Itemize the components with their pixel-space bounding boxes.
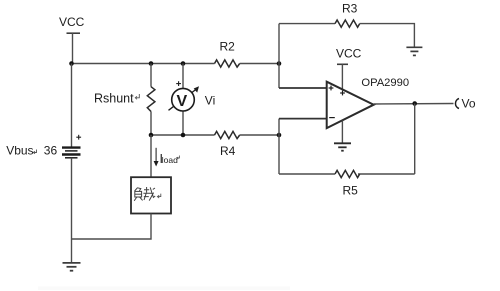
wire +input (node A to op-amp): [279, 87, 327, 89]
ground (R3): [406, 47, 422, 55]
svg-text:R5: R5: [343, 184, 359, 198]
terminal Vo: [455, 99, 459, 109]
node junction VCC rail / battery: [69, 61, 74, 66]
wire top rail left (VCC junction to R2): [72, 63, 215, 65]
resistor R2: [215, 60, 240, 67]
power VCC (op-amp): [336, 46, 362, 91]
svg-text:Rshunt: Rshunt: [94, 91, 134, 105]
wire output: [374, 103, 454, 106]
battery Vbus 36: [62, 64, 81, 264]
svg-text:V: V: [177, 93, 188, 110]
ground (op-amp): [334, 121, 351, 151]
label Rshunt: [94, 91, 139, 105]
svg-text:VCC: VCC: [59, 15, 85, 29]
label Vbus 36: [6, 143, 57, 157]
faint cropped caption at bottom: [38, 287, 290, 291]
node junction R4/R5/-input: [277, 133, 282, 138]
wire R5 left segment: [279, 173, 335, 175]
load box 负载: [131, 177, 171, 213]
node junction output/R5: [412, 101, 417, 106]
svg-text:VCC: VCC: [336, 46, 362, 60]
svg-text:R3: R3: [342, 1, 358, 15]
node junction Rshunt bottom / load: [149, 133, 154, 138]
wire -input (node B to op-amp): [279, 118, 327, 120]
wire load top: [150, 135, 152, 177]
svg-text:R2: R2: [220, 40, 236, 54]
wire R3 left segment: [279, 23, 335, 25]
label Iload: [160, 152, 180, 166]
svg-text:OPA2990: OPA2990: [361, 77, 409, 89]
resistor R5: [335, 170, 360, 177]
wire R3 right segment: [360, 24, 415, 48]
ground (battery): [63, 263, 81, 271]
resistor Rshunt: [147, 64, 155, 136]
resistor R4: [215, 131, 240, 138]
resistor R3: [335, 20, 360, 27]
current arrow Iload: [154, 148, 159, 167]
svg-text:Vo: Vo: [462, 96, 476, 110]
wire R2 to node A: [240, 63, 279, 65]
wire vertical node B (-input corner down to R5 corner): [278, 119, 280, 174]
voltmeter Vi: [169, 64, 200, 136]
svg-text:Vi: Vi: [205, 93, 215, 107]
wire R5 right vertical: [414, 104, 416, 175]
node junction voltmeter top: [181, 61, 186, 66]
svg-text:R4: R4: [220, 144, 236, 158]
wire R5 right segment: [358, 173, 415, 175]
op-amp U1 OPA2990: [327, 82, 374, 128]
wire R4 to node B: [240, 134, 279, 136]
power VCC (left): [59, 15, 85, 64]
svg-text:load: load: [162, 155, 178, 165]
wire load bottom to battery leg: [72, 214, 152, 240]
node junction Rshunt top: [149, 61, 154, 66]
node junction voltmeter bottom: [181, 133, 186, 138]
wire vertical node A (R3 corner down to +input corner): [278, 24, 280, 88]
svg-text:36: 36: [44, 143, 58, 157]
wire bottom rail (Rshunt bottom to R4): [151, 134, 215, 136]
svg-text:Vbus: Vbus: [6, 143, 33, 157]
node junction R2/R3/+input: [277, 61, 282, 66]
